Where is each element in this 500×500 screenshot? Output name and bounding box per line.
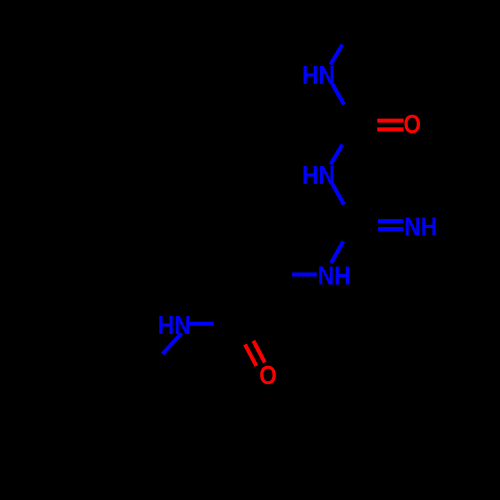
- svg-text:HN: HN: [302, 160, 335, 190]
- svg-text:HN: HN: [302, 60, 335, 90]
- svg-text:NH: NH: [404, 211, 437, 241]
- svg-text:O: O: [259, 360, 277, 390]
- svg-text:HN: HN: [158, 310, 191, 340]
- svg-text:NH: NH: [318, 260, 351, 290]
- svg-text:O: O: [404, 109, 422, 139]
